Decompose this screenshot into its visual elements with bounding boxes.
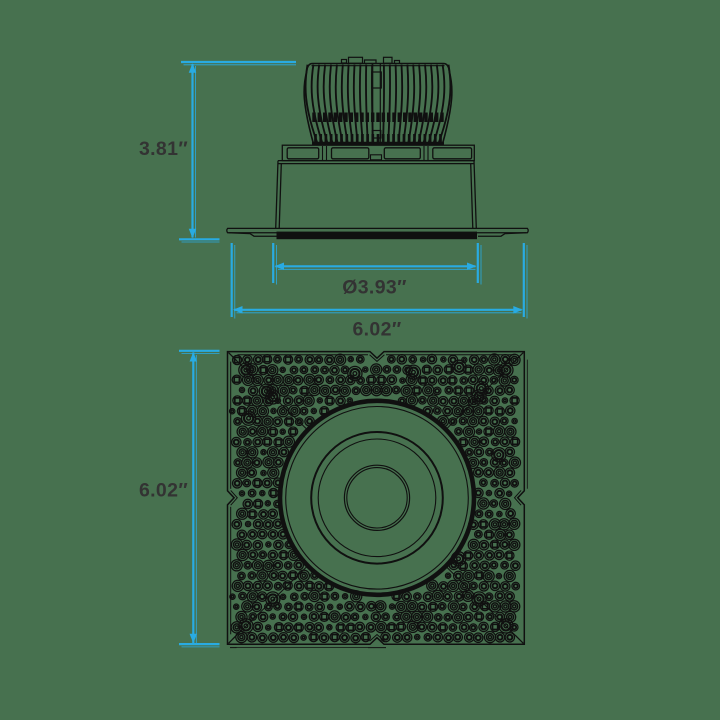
aperture ring r91 (286, 407, 469, 590)
extension lines aperture (273, 243, 481, 285)
svg-text:Ø3.93″: Ø3.93″ (342, 277, 407, 299)
dimension 6.02 inch horizontal (233, 306, 523, 314)
lens ring outer (344, 465, 409, 530)
heatsink top nubs (342, 57, 400, 63)
heatsink center channel (372, 64, 382, 144)
notch inner V marks (231, 355, 521, 641)
driver bracket row (282, 145, 474, 160)
heatsink base bar (312, 142, 444, 145)
heatsink fins (306, 65, 451, 144)
notch shadow marks (230, 647, 386, 649)
dimension diameter 3.93 inch (275, 263, 477, 271)
svg-text:6.02″: 6.02″ (352, 319, 401, 341)
aperture ring r59 (318, 439, 436, 557)
corner diagonal fold lines (233, 357, 520, 640)
housing body (276, 161, 477, 229)
dimension 3.81 inch vertical (179, 62, 296, 242)
flange interior bar (277, 232, 478, 240)
dimension 6.02 inch vertical (179, 351, 220, 647)
heatsink fin feet band (316, 134, 441, 143)
mounting flange (227, 228, 528, 236)
corner mitre ticks (229, 353, 524, 644)
extension lines flange width (232, 243, 527, 319)
aperture ring r66 (311, 432, 443, 564)
trim plate inner border lines (231, 355, 528, 648)
heatsink outline (304, 64, 452, 145)
svg-text:6.02″: 6.02″ (139, 480, 188, 502)
perforation pattern (230, 354, 521, 643)
aperture bold outer ring (280, 401, 474, 595)
svg-text:3.81″: 3.81″ (139, 138, 188, 160)
square trim plate border (228, 352, 525, 645)
bracket bolts (323, 146, 429, 160)
lens ring inner (347, 468, 407, 528)
heatsink fin joint band (314, 113, 442, 123)
